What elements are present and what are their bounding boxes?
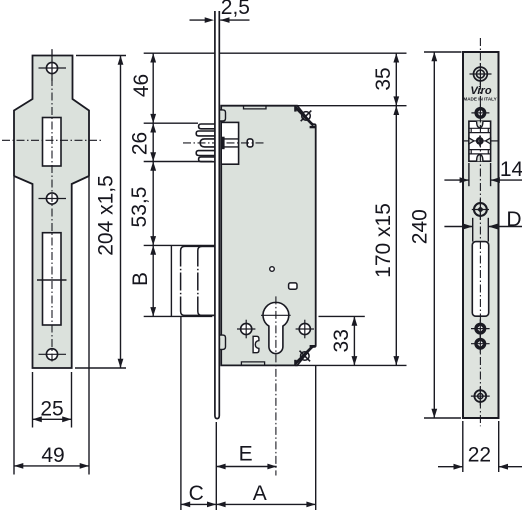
middle screw [474, 203, 487, 216]
latch window [43, 118, 62, 167]
svg-text:C: C [189, 482, 204, 505]
svg-text:Viro: Viro [470, 85, 491, 97]
countersunk screw 1 [474, 107, 486, 119]
svg-text:204 x1,5: 204 x1,5 [95, 175, 118, 256]
svg-text:14: 14 [500, 158, 522, 181]
top extension line [144, 52, 407, 54]
extension line latch top [144, 122, 198, 124]
dimension A [216, 503, 315, 505]
lock body [221, 106, 316, 366]
body bottom edge notch [241, 362, 264, 366]
svg-text:2,5: 2,5 [221, 0, 250, 19]
svg-text:D: D [506, 208, 521, 231]
strike top extension line [424, 51, 462, 53]
dimension 240 [424, 417, 461, 419]
svg-text:A: A [253, 482, 267, 505]
dimension 22 [462, 421, 464, 472]
dimension 170x15 [395, 106, 397, 366]
body screw right [299, 323, 310, 334]
extension line cylinder box top [144, 244, 215, 246]
svg-text:53,5: 53,5 [128, 187, 151, 228]
strike centerline [479, 38, 481, 426]
dimension 204x1,5 [76, 55, 126, 57]
svg-text:E: E [239, 443, 253, 466]
latch bolt bar4 [196, 151, 215, 156]
middle fixing hole [46, 193, 57, 204]
latch housing [221, 122, 238, 164]
body screw left [241, 323, 252, 334]
cylinder box left line [170, 245, 172, 316]
extension staple C [180, 316, 182, 510]
cylinder centerline [275, 296, 277, 475]
svg-text:B: B [129, 272, 152, 286]
svg-text:33: 33 [330, 329, 353, 352]
strike plate [463, 52, 499, 418]
strike bottom screw [474, 390, 486, 402]
svg-text:49: 49 [41, 444, 64, 467]
cylinder staple outer [181, 246, 216, 315]
latch bolt bar1 [199, 124, 215, 129]
dimension 2,5 [190, 19, 207, 21]
svg-text:240: 240 [409, 209, 432, 244]
latch cutout [469, 121, 491, 161]
svg-text:22: 22 [468, 444, 491, 467]
chamfer screw bottom [301, 352, 310, 361]
latch bolt bullet [200, 139, 215, 147]
left edge tab top [219, 110, 225, 121]
body top extension line [295, 105, 407, 107]
small square hole [289, 283, 297, 289]
extension body right A [315, 365, 317, 510]
dimension 35 [395, 53, 397, 105]
chamfer screw top [302, 112, 311, 121]
body bottom extension line [295, 364, 407, 366]
dimension stack 46/26/53,5/B [152, 53, 154, 316]
dimension C [181, 503, 216, 505]
cylinder staple inner [198, 246, 216, 315]
latch bolt bar5 [199, 157, 215, 162]
svg-text:35: 35 [372, 67, 395, 90]
faceplate side view [215, 11, 219, 419]
bottom fixing hole [46, 349, 57, 360]
svg-text:26: 26 [129, 132, 152, 155]
euro cylinder hole [263, 302, 289, 353]
latch centerline left view [2, 139, 102, 141]
body top edge notch [244, 106, 267, 109]
top fixing hole [46, 62, 57, 73]
small hole [270, 267, 275, 272]
dimension D [472, 218, 474, 242]
dimension 33 [319, 315, 365, 317]
left edge tab bottom [219, 335, 225, 349]
extension line cylinder center [144, 315, 213, 317]
countersunk screw 2 [474, 323, 486, 335]
chamfer edge top-right [295, 107, 313, 125]
spring bracket [253, 336, 259, 352]
dimension 25 [32, 372, 34, 428]
faceplate front view outline [14, 56, 89, 369]
latch dark block [221, 137, 225, 150]
latch centerline [183, 142, 264, 144]
extension line latch bottom [144, 161, 213, 163]
deadbolt edge line [37, 279, 67, 281]
latch tail lines [221, 138, 239, 140]
latch axle pin [247, 139, 253, 147]
dimension 49 [13, 177, 15, 475]
countersunk screw 3 [474, 338, 486, 350]
svg-text:170 x15: 170 x15 [372, 203, 395, 278]
svg-text:25: 25 [40, 398, 63, 421]
faceplate vertical centerline [51, 49, 53, 362]
staple dash gaps [179, 267, 199, 297]
latch bolt bar2 [196, 131, 215, 136]
deadbolt window [43, 233, 62, 325]
svg-text:46: 46 [130, 74, 153, 97]
deadbolt cutout [472, 242, 488, 317]
dimension 14 [468, 163, 470, 186]
extension faceplate face bottom [215, 422, 217, 510]
strike top screw [474, 67, 488, 81]
chamfer edge bottom-right [295, 346, 313, 364]
dimension E [216, 466, 276, 468]
